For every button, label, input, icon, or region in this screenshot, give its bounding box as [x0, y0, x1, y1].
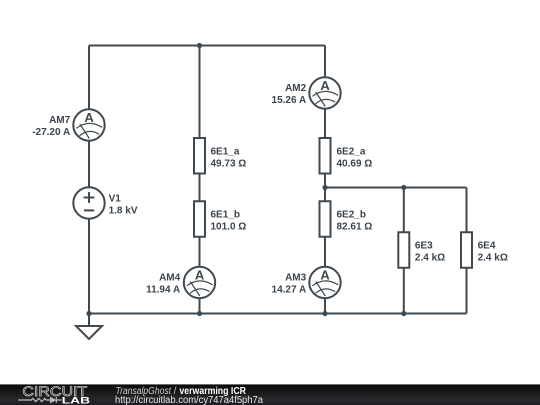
- wire 6E2_b to AM3: [324, 237, 326, 267]
- svg-text:AM3: AM3: [285, 273, 307, 284]
- svg-text:-27.20 A: -27.20 A: [32, 127, 70, 138]
- svg-text:AM4: AM4: [159, 273, 181, 284]
- node junction top of 6E3: [401, 185, 406, 190]
- resistor 6E3: [398, 232, 409, 268]
- svg-text:101.0 Ω: 101.0 Ω: [211, 221, 247, 232]
- wire middle branch top: [199, 46, 201, 139]
- resistor 6E2_b: [320, 201, 331, 237]
- node junction bottom of 6E3: [401, 311, 406, 316]
- svg-text:6E1_a: 6E1_a: [211, 146, 240, 157]
- svg-text:14.27 A: 14.27 A: [272, 285, 307, 296]
- wire 6E2_a to node: [324, 174, 326, 202]
- wire right horizontal: [325, 187, 467, 189]
- svg-text:2.4 kΩ: 2.4 kΩ: [478, 252, 508, 263]
- wire right branch top: [324, 46, 326, 78]
- svg-text:AM2: AM2: [285, 83, 307, 94]
- resistor 6E4: [461, 232, 472, 268]
- voltage source V1: [73, 187, 104, 218]
- svg-text:49.73 Ω: 49.73 Ω: [211, 158, 247, 169]
- svg-text:LAB: LAB: [62, 395, 90, 405]
- wire 6E4 branch top: [466, 188, 468, 233]
- ammeter AM7: [73, 109, 104, 140]
- node junction mid right: [322, 185, 327, 190]
- svg-text:AM7: AM7: [49, 115, 71, 126]
- svg-text:6E4: 6E4: [478, 240, 496, 251]
- svg-text:82.61 Ω: 82.61 Ω: [337, 221, 373, 232]
- ammeter AM2: [309, 77, 340, 108]
- svg-text:1.8 kV: 1.8 kV: [109, 206, 138, 217]
- wire between 6E1_a and 6E1_b: [199, 174, 201, 202]
- wire top horizontal: [89, 45, 325, 47]
- wire AM3 to bottom rail: [324, 298, 326, 313]
- wire bottom horizontal rail: [89, 313, 467, 315]
- wire 6E4 branch bottom: [466, 268, 468, 314]
- svg-text:2.4 kΩ: 2.4 kΩ: [415, 252, 445, 263]
- svg-text:40.69 Ω: 40.69 Ω: [337, 158, 373, 169]
- wire 6E3 branch bottom: [403, 268, 405, 314]
- footer bar: [0, 384, 540, 405]
- resistor 6E1_a: [194, 138, 205, 174]
- svg-text:15.26 A: 15.26 A: [272, 95, 307, 106]
- svg-text:V1: V1: [109, 193, 122, 204]
- node junction bottom left: [86, 311, 91, 316]
- node junction top middle: [197, 43, 202, 48]
- svg-text:11.94 A: 11.94 A: [146, 285, 180, 296]
- wire V1 to bottom rail: [88, 219, 90, 314]
- svg-text:6E1_b: 6E1_b: [211, 209, 240, 220]
- ammeter AM4: [184, 267, 215, 298]
- resistor 6E1_b: [194, 201, 205, 237]
- ground: [76, 314, 102, 340]
- resistor 6E2_a: [320, 138, 331, 174]
- ammeter AM3: [309, 267, 340, 298]
- wire AM7 to V1: [88, 141, 90, 188]
- wire 6E1_b to AM4: [199, 237, 201, 267]
- node junction bottom middle: [197, 311, 202, 316]
- svg-text:6E2_a: 6E2_a: [337, 146, 366, 157]
- svg-text:6E2_b: 6E2_b: [337, 209, 366, 220]
- svg-text:6E3: 6E3: [415, 240, 433, 251]
- svg-text:http://circuitlab.com/cy747a4f: http://circuitlab.com/cy747a4f5ph7a: [115, 395, 263, 405]
- wire AM4 to bottom rail: [199, 298, 201, 313]
- CircuitLab logo wire with resistor and diode: [18, 397, 61, 403]
- wire AM2 to 6E2_a: [324, 109, 326, 138]
- node junction bottom right: [322, 311, 327, 316]
- wire 6E3 branch top: [403, 188, 405, 233]
- wire left vertical top (top rail to AM7): [88, 46, 90, 111]
